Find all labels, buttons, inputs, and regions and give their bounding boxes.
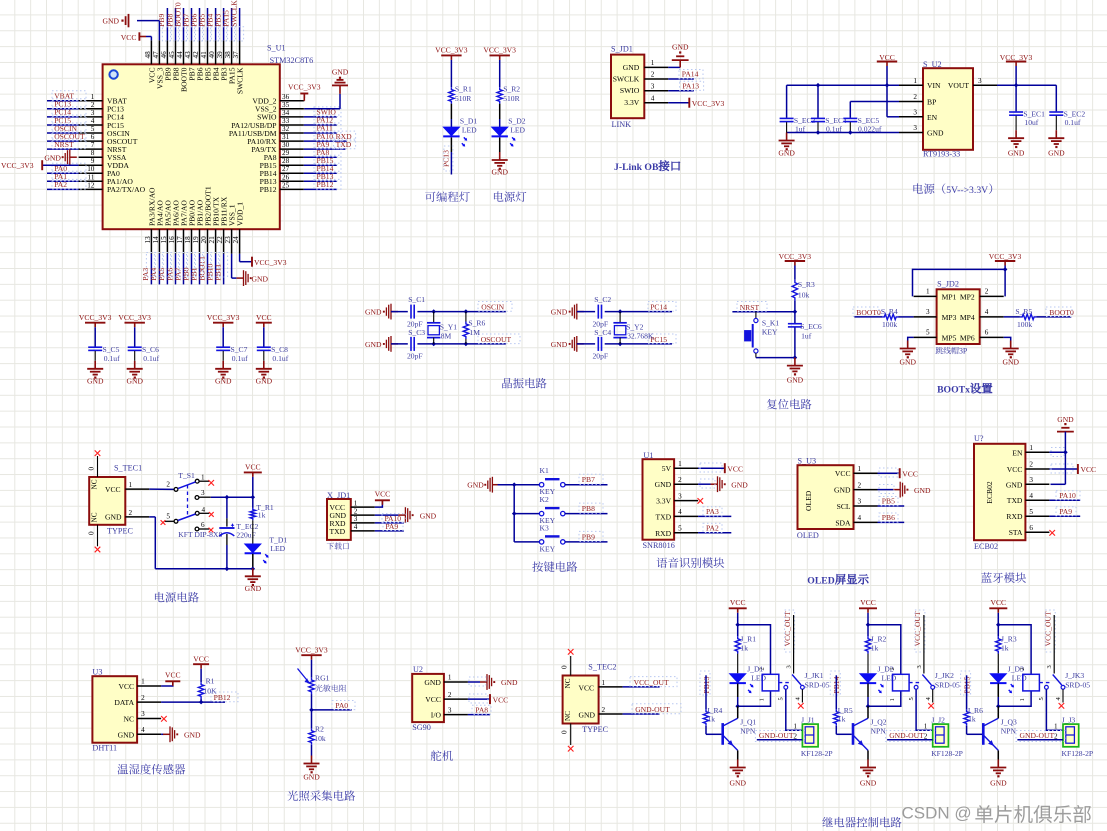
MCU pin 8 VSSA	[79, 156, 103, 158]
svg-text:SRD-05: SRD-05	[935, 680, 960, 689]
wire programmable LED resistor-led	[450, 104, 452, 119]
wire pin2 up	[1004, 269, 1006, 296]
svg-text:GND-OUT: GND-OUT	[889, 731, 924, 740]
svg-text:S_EC6: S_EC6	[800, 322, 822, 331]
svg-text:0.1uf: 0.1uf	[272, 354, 288, 363]
ECB02 pin 5 RXD	[1006, 512, 1023, 521]
wire+net label PB6	[878, 521, 905, 523]
svg-text:18: 18	[184, 236, 192, 244]
svg-text:LINK: LINK	[612, 120, 632, 129]
svg-text:8M: 8M	[441, 331, 452, 340]
svg-text:VCC: VCC	[375, 490, 391, 499]
capacitor S_EC2 0.1uf	[1055, 85, 1057, 111]
svg-text:S_TEC2: S_TEC2	[588, 662, 616, 671]
LED J_D3	[990, 674, 1006, 683]
svg-text:3: 3	[651, 82, 655, 90]
junction Y1 top	[431, 309, 436, 314]
ground (S_C6)	[134, 361, 136, 369]
connector S_JD1 designator	[611, 45, 633, 54]
svg-text:1: 1	[602, 679, 606, 687]
switch T_S1 poles	[174, 488, 178, 492]
relay NO contact no-ERC (relay 3)	[1062, 689, 1064, 702]
power port VCC (X_JD1)	[375, 501, 383, 507]
wire vcc-junction (relay 1)	[737, 613, 739, 637]
resistor S_R1 510R	[449, 87, 454, 104]
switch T_S1 designator	[178, 471, 195, 480]
S_TEC1 VCC pin name	[105, 485, 121, 494]
svg-text:U3: U3	[92, 667, 102, 676]
MCU pin 38 PA15 (top)	[231, 40, 233, 64]
connector J_J1 designator	[801, 715, 815, 724]
ground (C2)	[551, 308, 568, 317]
svg-text:1: 1	[793, 723, 797, 731]
label TYPEC (S_TEC1)	[107, 527, 133, 536]
svg-text:VCC_3V3: VCC_3V3	[118, 313, 151, 322]
svg-text:1: 1	[1054, 723, 1058, 731]
svg-text:3.3V: 3.3V	[624, 98, 639, 107]
MCU pin 35 VSS_2	[280, 108, 304, 110]
wire NC contact to J_J2	[916, 689, 933, 730]
MCU pin 47 VSS_3 (top)	[158, 40, 160, 64]
svg-text:2: 2	[1054, 732, 1058, 740]
resistor R2 10k	[309, 728, 314, 744]
connector S_JD1 body	[611, 55, 644, 119]
svg-text:3: 3	[1046, 665, 1053, 668]
svg-text:24: 24	[232, 236, 240, 244]
svg-text:OLED: OLED	[807, 576, 834, 587]
svg-text:26: 26	[282, 173, 290, 181]
svg-text:1: 1	[889, 698, 896, 701]
svg-text:3: 3	[926, 308, 930, 316]
svg-text:NC: NC	[91, 479, 99, 489]
wire gnd-C3	[391, 343, 408, 345]
ground (EC1)	[1015, 130, 1017, 138]
power port VCC (relay 3)	[991, 598, 1007, 607]
X_JD1 pin 1 VCC	[330, 503, 346, 512]
svg-text:GND: GND	[787, 376, 804, 385]
svg-text:0.022uf: 0.022uf	[858, 125, 882, 134]
svg-text:GND: GND	[245, 584, 262, 593]
module S_U3 designator	[798, 456, 817, 465]
wire VCC_3V3 stem	[1015, 66, 1017, 85]
svg-text:1M: 1M	[469, 328, 480, 337]
wire C3-OSCOUT	[417, 343, 505, 345]
svg-text:RXD: RXD	[1006, 512, 1023, 521]
U2 pin 2 VCC	[425, 695, 441, 704]
svg-text:GND: GND	[365, 308, 382, 317]
MCU pin 19 PB1/AO (bottom)	[199, 229, 201, 254]
svg-text:1: 1	[91, 93, 95, 101]
svg-text:32: 32	[282, 125, 290, 133]
junction cap top	[225, 495, 230, 500]
svg-text:2: 2	[889, 667, 896, 670]
MCU pin 4 PC15	[79, 124, 103, 126]
svg-text:7: 7	[91, 141, 95, 149]
svg-text:SCL: SCL	[837, 502, 851, 511]
S_U3 pin 3 SCL	[837, 502, 851, 511]
wire C4-PC15	[605, 343, 672, 345]
relay common wire (relay 3)	[1053, 615, 1055, 674]
svg-text:KEY: KEY	[762, 328, 778, 337]
wire led-gnd	[499, 138, 501, 153]
svg-text:3: 3	[354, 515, 358, 523]
wire bottom rail	[155, 568, 253, 570]
power port VCC_3V3 (BOOTx)	[989, 252, 1022, 261]
svg-text:2: 2	[91, 101, 95, 109]
connector S_JD2 body	[937, 289, 980, 344]
svg-text:6: 6	[1029, 524, 1033, 532]
junction NRST node	[793, 309, 798, 314]
wire LED-gnd	[252, 554, 254, 569]
svg-text:48: 48	[144, 51, 152, 59]
capacitor S_C7 0.1uf	[222, 327, 224, 346]
connector S_TEC1 body	[89, 477, 125, 525]
wire+net label PA2	[698, 532, 731, 534]
wire+net label PA0	[312, 709, 352, 711]
svg-text:KF128-2P: KF128-2P	[1062, 749, 1094, 758]
wire+net label PA13	[668, 90, 694, 92]
svg-text:5: 5	[908, 697, 915, 700]
svg-text:2: 2	[678, 476, 682, 484]
svg-text:2: 2	[166, 481, 170, 489]
MCU pin 24 VDD_1 (bottom)	[239, 229, 241, 254]
S_JD2 pins 5/6 MP5,MP6	[942, 333, 957, 342]
svg-text:VCC: VCC	[425, 695, 441, 704]
wire coil bottom (relay 2)	[868, 691, 901, 706]
svg-text:GND: GND	[332, 68, 349, 77]
wire R3-node	[794, 301, 796, 312]
MCU pin 1 VBAT	[79, 100, 103, 102]
wire+net label PA10 (bluetooth)	[1049, 499, 1080, 501]
capacitor S_C4 20pF	[597, 337, 599, 351]
junction VOUT/EC1	[1014, 83, 1019, 88]
svg-text:4: 4	[202, 506, 206, 514]
svg-text:20: 20	[200, 236, 208, 244]
MCU pin 16 PA6/AO (bottom)	[175, 229, 177, 254]
switch pin5 stub + no-ERC	[165, 520, 174, 522]
power port VCC (bluetooth)	[1049, 468, 1078, 470]
resistor S_R4 100k	[882, 314, 899, 319]
wire+net label PA14	[668, 78, 694, 80]
svg-text:SRD-05: SRD-05	[1065, 680, 1090, 689]
svg-text:38: 38	[224, 51, 232, 59]
junction DATA/R1	[199, 700, 204, 705]
U3 pin3 NC no-ERC	[161, 716, 167, 722]
svg-text:J_R1: J_R1	[740, 635, 756, 644]
resistor J_R1 1k	[735, 636, 740, 653]
svg-text:1uf: 1uf	[801, 332, 812, 341]
S_U2 pin 3 GND	[927, 129, 944, 138]
svg-text:28: 28	[282, 157, 290, 165]
ground (bluetooth top)	[1057, 415, 1074, 424]
svg-text:NC: NC	[564, 711, 572, 721]
svg-text:1: 1	[759, 698, 766, 701]
push button K2 KEY -> PB8	[540, 495, 549, 504]
X_JD1 pin 2 GND	[330, 511, 347, 520]
svg-text:SNR8016: SNR8016	[643, 541, 675, 550]
svg-text:21: 21	[208, 236, 216, 244]
S_U3 pin 2 GND	[834, 486, 851, 495]
wire key-bottom	[755, 353, 757, 358]
power port VCC_3V3 (programmable LED)	[435, 45, 468, 54]
ECB02 pin 4 TXD	[1007, 496, 1023, 505]
svg-text:GND: GND	[860, 779, 877, 788]
svg-text:GND: GND	[467, 481, 484, 490]
svg-text:KF128-2P: KF128-2P	[931, 749, 963, 758]
svg-text:PA2: PA2	[706, 524, 719, 533]
svg-text:PA0: PA0	[335, 701, 348, 710]
label RT9193-33	[923, 149, 960, 158]
MCU pin 29 PA8	[280, 156, 304, 158]
svg-text:0.1uf: 0.1uf	[1065, 118, 1081, 127]
wire vcc-junction (relay 2)	[867, 613, 869, 637]
net label OSCOUT	[481, 335, 512, 344]
capacitor S_EC5 0.022uf	[843, 117, 857, 119]
U2 pin 3 I/O	[431, 711, 442, 720]
junction Y1 bottom	[431, 342, 436, 347]
svg-text:19: 19	[192, 236, 200, 244]
MCU pin 39 PB3 (top)	[223, 40, 225, 64]
svg-text:47: 47	[152, 51, 160, 59]
svg-text:20pF: 20pF	[593, 351, 609, 360]
ground (relay 3)	[997, 760, 999, 768]
LED J_D2	[860, 674, 876, 683]
svg-text:0: 0	[88, 467, 96, 471]
wire R4-pin3	[899, 316, 914, 318]
svg-text:10k: 10k	[798, 291, 810, 300]
svg-text:25: 25	[282, 181, 290, 189]
MCU pin 32 PA11/USB/DM	[280, 132, 304, 134]
svg-text:3: 3	[1029, 476, 1033, 484]
connector S_JD2 designator	[937, 280, 959, 289]
svg-text:3: 3	[916, 665, 923, 668]
svg-text:2: 2	[793, 732, 797, 740]
junction collector node (relay 3)	[996, 704, 1001, 709]
svg-text:39: 39	[216, 51, 224, 59]
power port VCC (S_C8)	[256, 313, 272, 322]
resistor S_R5 100k	[1020, 314, 1037, 319]
svg-text:2: 2	[985, 288, 989, 296]
svg-text:R1: R1	[206, 677, 215, 686]
ECB02 pin 1 EN	[1012, 448, 1023, 457]
svg-text:GND: GND	[579, 711, 596, 720]
svg-text:S_R3: S_R3	[798, 280, 815, 289]
svg-text:4: 4	[1029, 492, 1033, 500]
S_JD1 pin 2 SWCLK	[613, 75, 640, 84]
label 温湿度传感器	[118, 764, 186, 775]
svg-text:1k: 1k	[740, 644, 748, 653]
svg-text:NPN: NPN	[871, 726, 887, 735]
resistor S_R6 1M	[465, 312, 467, 322]
svg-text:GND: GND	[252, 274, 269, 283]
svg-text:VCC: VCC	[1007, 465, 1023, 474]
wire vcc-junction (relay 3)	[997, 613, 999, 637]
wire C2-PC14	[605, 311, 672, 313]
J_J3 pin1 number	[1054, 723, 1058, 731]
svg-text:VCC: VCC	[860, 598, 876, 607]
svg-text:KEY: KEY	[540, 544, 556, 553]
svg-text:6: 6	[985, 329, 989, 337]
MCU pin 28 PB15	[280, 164, 304, 166]
wire RG1-node	[311, 694, 313, 728]
relay armature (relay 1)	[792, 675, 801, 686]
svg-text:3: 3	[141, 710, 145, 718]
svg-text:6: 6	[91, 133, 95, 141]
resistor J_R6 1k	[964, 709, 969, 726]
MCU pin 11 PA1/AO	[79, 180, 103, 182]
svg-text:NPN: NPN	[1001, 726, 1017, 735]
wire with net label PC13	[450, 138, 452, 153]
svg-text:1k: 1k	[838, 714, 846, 723]
wire LED-node (relay 2)	[867, 684, 869, 698]
relay designator J_JK1 SRD-05	[805, 671, 824, 680]
ground (light)	[311, 756, 313, 764]
wire R-base (relay 2)	[835, 726, 837, 735]
ground (reset)	[794, 358, 796, 366]
MCU pin 10 PA0	[79, 172, 103, 174]
svg-text:1k: 1k	[1001, 644, 1009, 653]
svg-text:K2: K2	[540, 495, 549, 504]
MCU pin 3 PC14	[79, 116, 103, 118]
wire vcc down	[252, 477, 254, 508]
svg-text:5: 5	[926, 329, 930, 337]
svg-text:MP3: MP3	[942, 313, 957, 322]
svg-text:4: 4	[141, 726, 145, 734]
svg-text:1k: 1k	[968, 714, 976, 723]
svg-text:23: 23	[224, 236, 232, 244]
ground (keys)	[467, 481, 484, 490]
svg-text:45: 45	[168, 51, 176, 59]
net label OSCIN	[481, 303, 504, 312]
svg-text:43: 43	[184, 51, 192, 59]
svg-text:30: 30	[282, 141, 290, 149]
S_TEC2 pin2 GND-OUT	[599, 713, 623, 715]
S_JD1 pin 3 SWIO	[620, 86, 640, 95]
wire programmable LED vcc-resistor	[450, 60, 452, 87]
label 晶振电路	[502, 378, 546, 389]
wire netlabel-R (relay 1)	[705, 675, 707, 709]
wire S_JD1 pin1 to GND	[668, 66, 680, 68]
MCU pin 22 PB11/RX (bottom)	[223, 229, 225, 254]
power port VCC (relay 2)	[860, 598, 876, 607]
svg-text:VCC: VCC	[121, 33, 137, 42]
resistor J_R2 1k	[865, 636, 870, 653]
MCU pin 33 PA12/USB/DP	[280, 124, 304, 126]
junction R6 bottom	[464, 342, 469, 347]
svg-text:VCC_3V3: VCC_3V3	[435, 45, 468, 54]
svg-text:S_U3: S_U3	[798, 456, 817, 465]
svg-text:S_C6: S_C6	[142, 345, 159, 354]
svg-text:J_R3: J_R3	[1001, 635, 1017, 644]
power port VCC_3V3 at MCU pin24 VDD_1	[239, 254, 241, 262]
MCU pin 23 VSS_1 (bottom)	[231, 229, 233, 254]
svg-text:PA8: PA8	[475, 705, 488, 714]
svg-text:VCC_3V3: VCC_3V3	[1, 161, 34, 170]
svg-text:S_R5: S_R5	[1015, 307, 1032, 316]
junction vcc split (relay 2)	[866, 622, 871, 627]
svg-text:U?: U?	[974, 434, 984, 443]
LED T_D1	[245, 544, 261, 553]
push button S_K1 KEY	[754, 318, 758, 322]
ECB02 rotated text	[985, 481, 994, 504]
svg-text:16: 16	[168, 236, 176, 244]
ECB02 pin 2 VCC	[1007, 465, 1023, 474]
ground at MCU pin23 VSS_1	[231, 254, 233, 278]
wire LED-node (relay 3)	[997, 684, 999, 698]
svg-text:GND: GND	[672, 42, 689, 51]
net label RXD	[336, 132, 353, 141]
S_TEC1 bottom pin 0 with no-ERC	[97, 525, 99, 547]
svg-text:GND: GND	[990, 779, 1007, 788]
relay armature (relay 2)	[922, 675, 931, 686]
wire gnd-C1	[391, 311, 408, 313]
svg-text:VCC: VCC	[165, 671, 181, 680]
svg-text:2: 2	[1019, 667, 1026, 670]
svg-text:3: 3	[448, 706, 452, 714]
ground (relay 2)	[867, 760, 869, 768]
svg-text:27: 27	[282, 165, 290, 173]
resistor J_R4 1k	[703, 709, 708, 726]
wire GND-OUT to J_J3 pin2	[1016, 731, 1065, 742]
svg-text:GND: GND	[914, 486, 931, 495]
svg-text:SG90: SG90	[412, 723, 431, 732]
svg-text:GND-OUT: GND-OUT	[1020, 731, 1055, 740]
wire BOOT0-R4	[854, 316, 882, 318]
power port VCC (DHT11)	[161, 682, 173, 686]
svg-text:11: 11	[88, 173, 95, 181]
svg-text:VCC_3V3: VCC_3V3	[254, 258, 287, 267]
wire GND-OUT to J_J2 pin2	[886, 731, 935, 742]
svg-text:1: 1	[201, 473, 205, 481]
svg-text:17: 17	[176, 236, 184, 244]
net label PC15	[650, 335, 667, 344]
svg-text:2: 2	[858, 481, 862, 489]
crystal S_Y1 8M	[433, 312, 435, 323]
photoresistor RG1	[309, 678, 314, 694]
svg-text:2: 2	[448, 691, 452, 699]
svg-text:GND: GND	[105, 513, 122, 522]
ground (power circuit)	[252, 568, 254, 576]
wire VIN rail	[787, 84, 899, 86]
power port VCC (relay 1)	[730, 598, 746, 607]
MCU pin 26 PB13	[280, 180, 304, 182]
svg-text:1: 1	[913, 77, 917, 85]
relay J_JK2 dashed link	[909, 682, 920, 684]
wire R-LED (relay 1)	[737, 654, 739, 674]
power port VCC_3V3 (S_C6)	[118, 313, 151, 322]
label BOOTx设置	[937, 383, 992, 395]
S_TEC2 top pin 0 + no-ERC	[570, 656, 572, 676]
svg-text:OSCOUT: OSCOUT	[481, 335, 512, 344]
svg-text:T_S1: T_S1	[178, 471, 195, 480]
svg-text:PA2/TX/AO: PA2/TX/AO	[107, 185, 146, 194]
svg-text:33: 33	[282, 117, 290, 125]
S_JD2 pins 3/4 MP3,MP4	[942, 313, 957, 322]
svg-text:PC13: PC13	[442, 150, 451, 167]
svg-text:PA2: PA2	[54, 180, 67, 189]
module S_U3 body (OLED)	[798, 465, 854, 529]
svg-text:PB9: PB9	[582, 532, 595, 541]
wire gnd-bus	[498, 484, 515, 486]
net label TXD	[336, 140, 352, 149]
svg-text:13: 13	[144, 236, 152, 244]
svg-text:1k: 1k	[258, 511, 266, 520]
svg-text:PB5: PB5	[882, 497, 895, 506]
wire R5-BOOT0	[1036, 316, 1071, 318]
svg-text:6: 6	[201, 521, 205, 529]
label 舵机	[431, 750, 453, 760]
resistor S_R2 510R	[497, 87, 502, 104]
